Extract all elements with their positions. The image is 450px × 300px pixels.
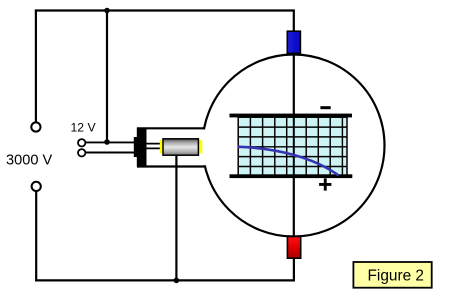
wire blue terminal to top plate — [293, 52, 295, 115]
wire bottom horizontal — [35, 279, 295, 281]
terminal 12V bottom — [78, 149, 85, 156]
electron gun block — [134, 128, 147, 167]
neck bottom outline — [137, 165, 206, 167]
wire red terminal riser — [293, 256, 295, 281]
minus polarity label — [320, 106, 330, 109]
node junction top — [104, 8, 110, 14]
neck top outline — [137, 127, 205, 129]
top deflection plate — [230, 114, 353, 118]
wire junction drop to 12V — [106, 11, 108, 143]
wire 12V top — [86, 141, 135, 143]
grid horizontal lines — [238, 127, 347, 166]
wire left vertical to 3000V top terminal — [35, 11, 37, 123]
svg-text:Figure 2: Figure 2 — [368, 267, 424, 284]
cathode glow — [160, 140, 203, 153]
bottom deflection plate — [230, 174, 353, 178]
red cathode cap terminal — [287, 237, 300, 259]
heater lead lower — [146, 147, 164, 149]
electron beam trace — [239, 147, 338, 175]
grid vertical lines — [250, 117, 342, 176]
screen grid — [238, 117, 347, 176]
wire 12V bottom — [86, 152, 135, 154]
node junction on 12V wire — [104, 139, 110, 145]
svg-text:3000 V: 3000 V — [6, 153, 53, 169]
wire top horizontal — [35, 9, 295, 11]
terminal 3000V top — [31, 122, 40, 131]
wire through screen — [293, 117, 295, 176]
wire cathode down lead — [175, 155, 177, 280]
neck opening (erase left arc) — [120, 130, 207, 166]
terminal 3000V bottom — [32, 182, 41, 191]
heater lead upper — [146, 143, 164, 145]
figure label box — [353, 262, 431, 288]
blue anode cap terminal — [287, 31, 300, 53]
wire bottom plate to red terminal — [293, 177, 295, 238]
CRT bulb — [203, 55, 385, 237]
wire anode drop from top rail — [293, 11, 295, 33]
svg-text:12 V: 12 V — [71, 121, 97, 135]
cathode cylinder — [163, 139, 198, 155]
node junction cathode/bottom wire — [174, 278, 180, 284]
plus polarity label — [319, 178, 331, 190]
wire bottom-left vertical — [35, 191, 37, 281]
terminal 12V top — [78, 139, 85, 146]
